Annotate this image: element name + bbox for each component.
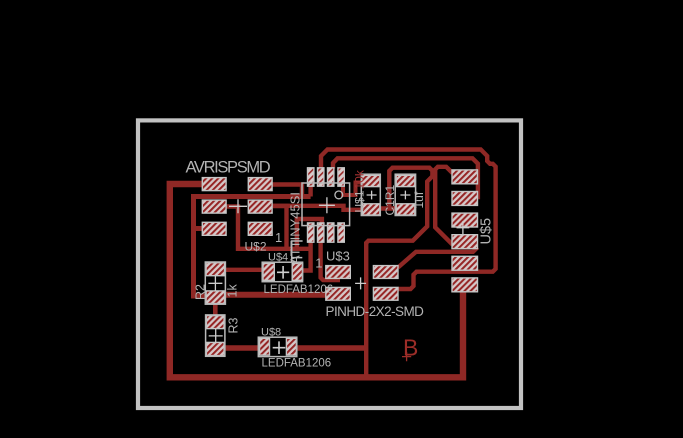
- svg-text:U$2: U$2: [245, 240, 267, 254]
- svg-text:U$1: U$1: [353, 190, 367, 212]
- wire pin1 net horizontal: [194, 197, 311, 297]
- wire pin4 to R1 top: [343, 183, 364, 196]
- pad U$3-3: [326, 287, 351, 300]
- svg-text:1: 1: [315, 256, 322, 271]
- pad U$2-5: [202, 222, 226, 235]
- pad U$5-4: [452, 235, 478, 249]
- wire U$5 pad1 to pad4: [435, 167, 452, 245]
- pads IC U$1 ATTINY45SI top row: [308, 168, 345, 242]
- pads IC U$1 bottom row: [308, 223, 314, 242]
- node origin U$8: [273, 341, 286, 354]
- pad U$2-6: [248, 222, 272, 235]
- svg-text:LEDFAB1206: LEDFAB1206: [264, 284, 334, 296]
- capacitor C1 body: [395, 174, 415, 215]
- pad U$5-1: [452, 170, 478, 184]
- wire GND bus: U$2 pad1 left, down, bottom bus, up to U$5 pad6: [170, 184, 463, 377]
- LED U$4 body: [262, 262, 302, 282]
- node origin PINHD: [355, 277, 366, 289]
- pad U$8 cathode: [286, 338, 296, 355]
- pad U$2-2: [248, 178, 272, 191]
- wires (top copper traces): [170, 150, 496, 378]
- wire R1-C1 bottom link: [378, 206, 398, 210]
- wire pin2 outer loop to U$5 pad5 and PINHD R2: [321, 150, 496, 290]
- svg-text:R2: R2: [194, 284, 208, 300]
- svg-text:LEDFAB1206: LEDFAB1206: [262, 358, 332, 370]
- pad U$5-5: [452, 256, 478, 270]
- IC U$1 ATTINY45SI body outline: [302, 183, 350, 226]
- wire U$2 R2 down branch: [272, 206, 287, 249]
- wire GND loop over C1 down to bottom bus: [366, 168, 432, 377]
- pad C1-2: [396, 204, 415, 215]
- svg-text:AVRISPSMD: AVRISPSMD: [186, 159, 271, 177]
- node B origin cross red: [402, 352, 411, 361]
- svg-text:1k: 1k: [226, 284, 240, 298]
- pad R1-1: [362, 175, 380, 186]
- node origin C1: [400, 191, 410, 200]
- pad U$4 anode: [263, 263, 274, 280]
- svg-text:R3: R3: [227, 317, 241, 333]
- IC U$1 pin1 circle marker: [335, 191, 343, 199]
- wire U$2 R2 to R1 bottom through IC: [272, 206, 364, 210]
- svg-text:U$8: U$8: [261, 326, 281, 338]
- wire pin5 down to U$4 right: [300, 240, 311, 271]
- svg-text:U$4: U$4: [268, 251, 288, 263]
- svg-text:1uf: 1uf: [412, 191, 426, 208]
- board outline dimension layer: [138, 120, 521, 408]
- wire R2-R3 link: [213, 302, 218, 317]
- pad U$2-3: [202, 200, 226, 213]
- pad U$3-2: [373, 266, 398, 279]
- wire IC pin1 down stub: [308, 183, 312, 197]
- pad U$3-4: [373, 287, 398, 300]
- LED U$8 body: [258, 337, 297, 356]
- svg-text:10k: 10k: [353, 169, 367, 189]
- silkscreen text labels: [186, 159, 495, 370]
- silkscreen outlines: [205, 174, 415, 356]
- pad U$5-2: [452, 192, 478, 206]
- wire pin6 to PINHD L1: [321, 240, 340, 280]
- resistor R3 body: [206, 315, 225, 356]
- pad U$8 anode: [260, 338, 270, 355]
- resistor R2 body: [205, 262, 225, 304]
- node origin R1: [367, 191, 377, 200]
- pad R2-2: [206, 291, 225, 304]
- LED U$4 cathode mark: [292, 241, 303, 262]
- pad U$4 cathode: [292, 263, 302, 280]
- wire U$2 L2 to pin5 horizontal: [226, 207, 311, 249]
- resistor R1 body: [361, 174, 380, 215]
- node origin R2: [208, 276, 222, 291]
- wire R2 bottom bus to PINHD L2: [225, 292, 329, 298]
- origin crosses: [208, 191, 469, 354]
- node origin IC: [319, 197, 335, 213]
- wire U$5 pad4 to PINHD R1: [398, 247, 478, 267]
- wire pin6 U-shape: [297, 219, 322, 249]
- wire stub to U$2 pad L3: [194, 226, 207, 231]
- pad U$2-1: [202, 178, 226, 191]
- wire U$8 right to GND vertical: [295, 345, 366, 351]
- pads U$2 AVRISPSMD: [202, 168, 477, 356]
- pad U$3-1: [326, 266, 351, 279]
- node origin U$5: [457, 221, 470, 234]
- svg-text:U$3: U$3: [326, 249, 350, 264]
- pad U$5-6: [452, 278, 478, 292]
- wire pin3 inner loop to U$5 pad2: [333, 158, 478, 197]
- svg-text:ATTINY45SI: ATTINY45SI: [288, 192, 303, 264]
- svg-text:1: 1: [275, 230, 282, 245]
- wire R2 top to U$4 left: [225, 268, 265, 272]
- pad U$5-3: [452, 213, 478, 227]
- node origin R3: [209, 329, 223, 344]
- pad C1-1: [396, 175, 415, 186]
- wire R3 to U$8 left: [222, 345, 262, 351]
- pad R2-1: [206, 263, 225, 276]
- pad U$2-4: [248, 200, 272, 213]
- pad R1-2: [362, 204, 380, 215]
- wire U$2 R1 elbow to pin1: [272, 185, 302, 197]
- node origin U$4: [277, 266, 289, 279]
- pad R3-1: [206, 316, 224, 329]
- svg-text:C1R1: C1R1: [383, 184, 397, 215]
- svg-text:U$5: U$5: [479, 218, 495, 245]
- node origin U$2: [229, 199, 247, 213]
- pad R3-2: [206, 342, 224, 355]
- svg-text:PINHD-2X2-SMD: PINHD-2X2-SMD: [326, 304, 425, 319]
